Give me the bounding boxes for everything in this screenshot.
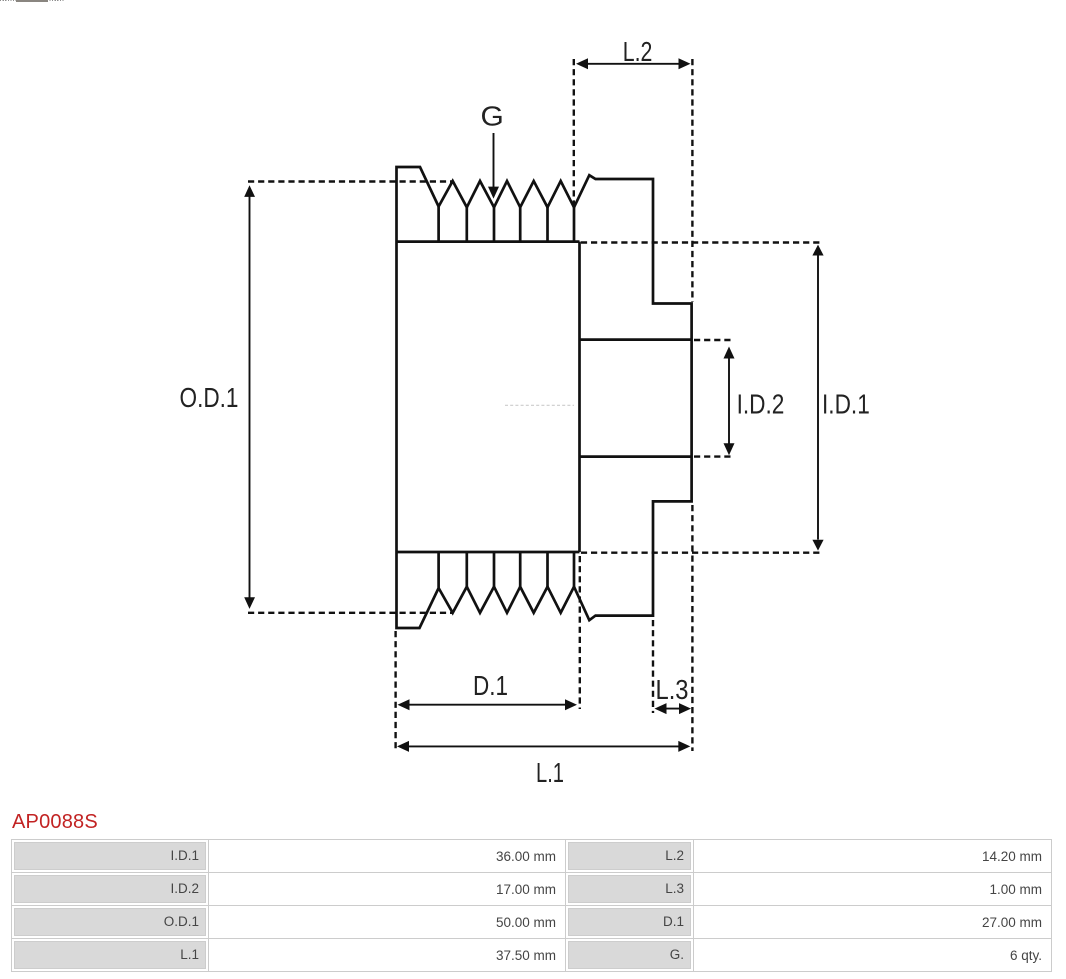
- O.D.1 arrowheads: [244, 185, 255, 197]
- svg-text:O.D.1: O.D.1: [180, 382, 239, 413]
- groove root lines top: [439, 207, 574, 242]
- svg-text:I.D.1: I.D.1: [822, 389, 870, 420]
- top-edge cropped artifact: solid segment: [16, 0, 48, 2]
- bore shelf bottom line: [580, 455, 692, 458]
- I.D.1 arrowheads: [812, 245, 823, 256]
- L.2 arrowheads: [576, 58, 588, 69]
- D.1 / L.1 extension line left: [394, 631, 396, 751]
- svg-text:D.1: D.1: [473, 670, 508, 701]
- O.D.1 extension line top: [248, 180, 452, 182]
- pulley outer contour: [397, 167, 692, 628]
- L.3 dimension line: [658, 708, 688, 710]
- hub right edge: [578, 242, 581, 552]
- svg-text:G: G: [481, 101, 504, 132]
- L.1 arrowheads: [397, 741, 409, 752]
- D.1 extension line right: [579, 556, 581, 709]
- svg-text:I.D.2: I.D.2: [737, 389, 785, 420]
- L.2 extension line left: [573, 59, 575, 205]
- D.1 arrowheads: [398, 699, 410, 710]
- L.3 arrowheads: [655, 703, 667, 714]
- I.D.2 arrowheads: [724, 347, 735, 359]
- I.D.2 dimension line: [728, 358, 730, 445]
- I.D.1 extension line top: [581, 241, 822, 243]
- I.D.2 extension line top: [694, 339, 733, 341]
- svg-text:L.3: L.3: [656, 674, 689, 705]
- bore shelf top line: [580, 338, 692, 341]
- hub bottom line: [397, 551, 580, 554]
- hub top line: [397, 240, 580, 243]
- L.2 dimension line: [586, 63, 680, 65]
- L.3 / L.1 extension line right: [691, 505, 693, 751]
- O.D.1 dimension line: [249, 196, 251, 599]
- spec table: [11, 839, 1052, 972]
- svg-text:L.1: L.1: [536, 757, 564, 788]
- G arrowhead: [488, 187, 499, 199]
- L.3 extension line left: [652, 620, 654, 713]
- D.1 dimension line: [408, 704, 567, 706]
- groove root lines bottom: [439, 552, 574, 588]
- I.D.1 extension line bottom: [581, 552, 822, 554]
- L.1 dimension line: [408, 745, 680, 747]
- svg-text:L.2: L.2: [623, 36, 653, 67]
- O.D.1 extension line bottom: [248, 612, 452, 614]
- G leader line: [493, 133, 495, 188]
- centerline: [505, 404, 574, 406]
- L.2 / L.1 extension line right: [691, 59, 693, 302]
- top-edge cropped artifact: dotted row: [0, 0, 64, 1]
- part number: [12, 811, 98, 834]
- I.D.2 extension line bottom: [694, 455, 733, 457]
- I.D.1 dimension line: [817, 256, 819, 540]
